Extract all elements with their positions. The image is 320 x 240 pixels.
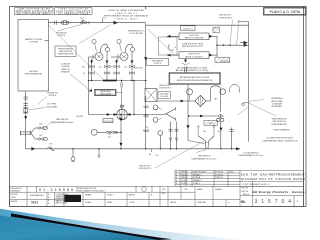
N8 tick	[151, 149, 153, 152]
svg-text:DIA ORIFICE: DIA ORIFICE	[198, 155, 211, 158]
svg-text:EXPANSION JT 2: EXPANSION JT 2	[128, 29, 145, 32]
svg-text:REFROIDISSEUR AIR ATOMISATION: REFROIDISSEUR AIR ATOMISATION	[177, 79, 213, 82]
valve NO upper branch	[37, 127, 43, 130]
wire: elbow down at x=145.7	[145, 23, 147, 89]
svg-text:REFRIGERATION: REFRIGERATION	[25, 73, 42, 76]
capillary coil	[121, 81, 123, 87]
svg-text:91-315585: 91-315585	[39, 188, 73, 192]
svg-text:TEMP SENSOR: TEMP SENSOR	[271, 119, 287, 121]
svg-text:TEMPERATURE: TEMPERATURE	[271, 123, 287, 126]
svg-text:MADE: MADE	[197, 188, 203, 191]
right leg arrow stub	[167, 54, 179, 56]
title text box line	[240, 181, 304, 183]
wire: branch to coupling	[189, 115, 217, 117]
svg-text:AIR COMP INSTRUM SEATED: AIR COMP INSTRUM SEATED	[17, 13, 51, 16]
trd hatched box	[204, 120, 218, 125]
flow arrow right on bottom pipe	[31, 147, 35, 150]
wire: riser x145.7 to main pipe	[145, 115, 147, 149]
svg-text:SCALE: SCALE	[85, 201, 92, 204]
svg-text:CARTOUCHE 1: CARTOUCHE 1	[193, 171, 206, 174]
leader funnel	[196, 150, 206, 153]
leader to solenoid	[38, 97, 47, 105]
wire: pipe y101 from x-box	[157, 100, 196, 102]
swoosh pale blue band	[0, 209, 240, 240]
svg-text:B: B	[48, 200, 49, 202]
svg-text:6 POS 02: 6 POS 02	[215, 174, 223, 176]
inner right border line	[303, 7, 305, 207]
sheet border	[10, 7, 307, 207]
flange pair upper	[24, 96, 29, 98]
svg-text:CHK'D: CHK'D	[11, 197, 17, 199]
branch lower	[31, 133, 37, 139]
svg-text:AIR HOSES: AIR HOSES	[271, 100, 283, 103]
svg-text:VOIR NOTE 2: VOIR NOTE 2	[219, 17, 233, 19]
fold tick	[145, 7, 147, 10]
svg-text:NO: NO	[102, 18, 106, 20]
svg-text:NO: NO	[80, 18, 84, 20]
motor pump triangles	[114, 113, 117, 116]
capped stub	[98, 148, 99, 149]
svg-text:617 GPM: 617 GPM	[47, 104, 56, 106]
svg-text:TER 03: TER 03	[181, 174, 187, 176]
title block outer	[10, 186, 304, 206]
svg-text:PLAN C.A.O. CATIA: PLAN C.A.O. CATIA	[270, 10, 301, 14]
svg-text:CAPTEUR DE: CAPTEUR DE	[59, 50, 73, 53]
svg-text:1-(8T#50-): 1-(8T#50-)	[134, 67, 143, 69]
flow arrow down right riser	[144, 57, 147, 60]
svg-text:CODE: CODE	[129, 202, 135, 204]
tag box on pipe	[181, 26, 196, 31]
water cooling system box	[18, 20, 49, 92]
nozzle tick	[45, 40, 49, 42]
wire: pipe y45	[217, 44, 249, 46]
spring hose left	[197, 128, 200, 137]
funnel venturi	[198, 136, 214, 149]
wire: hook hose	[206, 86, 221, 112]
wire: top supply pipe	[49, 22, 146, 24]
svg-text:NOTE 3: NOTE 3	[154, 63, 161, 65]
flange pair lower	[24, 103, 29, 105]
title block row line	[10, 191, 161, 193]
svg-text:ISSUED: ISSUED	[215, 189, 223, 191]
revision table	[175, 170, 304, 186]
svg-text:NIVEAU 3: NIVEAU 3	[193, 173, 202, 176]
svg-text:ISSUED: ISSUED	[11, 201, 18, 203]
swoosh black stripe	[11, 213, 172, 240]
wire: y-branch	[163, 109, 176, 120]
svg-text:DIAGRAM SCH. PP. COOLING WATER: DIAGRAM SCH. PP. COOLING WATER	[241, 177, 306, 181]
capillary box	[95, 89, 117, 95]
svg-text:ZONE 1: ZONE 1	[193, 183, 200, 185]
svg-text:REF 10: REF 10	[243, 194, 249, 196]
leader see note 2	[155, 141, 205, 168]
expansion joint oval	[61, 21, 69, 25]
PI gauge	[91, 129, 97, 135]
svg-text:P/E 7/6: P/E 7/6	[242, 188, 249, 190]
svg-text:DIAPHRAGME Ø 41.3 mm: DIAPHRAGME Ø 41.3 mm	[239, 154, 264, 157]
atomizing hoses leaders	[249, 100, 264, 102]
wire: mid pipe y25	[146, 24, 249, 26]
svg-text:ATOMIZING: ATOMIZING	[271, 97, 283, 100]
svg-text:W: W	[83, 73, 85, 75]
wire: drop pipe from box bottom	[25, 91, 27, 149]
flow arrow on top pipe	[113, 21, 118, 24]
wire: bottom loop pipe	[89, 114, 164, 116]
pump 2 discharge loop	[125, 44, 132, 53]
header pipe	[89, 80, 146, 82]
svg-text:ONE FINE: ONE FINE	[197, 202, 207, 204]
svg-text:TEMP SENSOR: TEMP SENSOR	[58, 48, 74, 50]
NO tag top pipe right	[102, 19, 104, 23]
wire: box outlet drop x188	[187, 85, 189, 141]
pump top tag	[121, 107, 123, 110]
svg-text:PATTE TO GAUCHE: PATTE TO GAUCHE	[185, 37, 204, 40]
temp sensor leader	[249, 103, 276, 116]
pump 2 suction line	[111, 56, 120, 58]
svg-text:POS 02: POS 02	[181, 183, 188, 185]
svg-text:1-(LT#50-): 1-(LT#50-)	[104, 121, 113, 123]
solenoid valve NO on top pipe	[80, 21, 87, 24]
capillary box link	[116, 91, 122, 93]
note box 2	[55, 8, 93, 15]
junction dots header	[88, 80, 89, 81]
svg-text:2-(TEP-N.1): 2-(TEP-N.1)	[220, 61, 231, 63]
svg-text:26 DIA IN ORIFICE IN BODY: 26 DIA IN ORIFICE IN BODY	[266, 137, 294, 140]
globe valve on bottom pipe	[48, 147, 55, 151]
valve NO on riser	[143, 130, 148, 132]
svg-text:B: B	[48, 203, 49, 205]
leader dia orifice	[47, 123, 52, 129]
svg-text:SEE NOTE 2: SEE NOTE 2	[219, 15, 232, 17]
svg-text:NOTE 4: NOTE 4	[49, 95, 57, 97]
svg-text:PATTES SUPPORT TU: PATTES SUPPORT TU	[182, 45, 203, 48]
motor pump circle	[117, 109, 128, 120]
svg-text:DRAFT /: DRAFT /	[85, 194, 93, 197]
pump 1 gauge a	[92, 39, 96, 43]
svg-text:LEFT LEG: LEFT LEG	[189, 35, 199, 37]
svg-text:POS 02: POS 02	[181, 180, 188, 182]
flow arrows bottom loop	[107, 113, 110, 116]
svg-text:DR'N BY: DR'N BY	[11, 194, 19, 196]
hose hook top right	[230, 85, 240, 93]
svg-text:7/E: 7/E	[184, 189, 188, 191]
orifice plate	[23, 107, 29, 109]
junction dot loop/riser	[133, 80, 134, 81]
svg-text:D'HUILE: D'HUILE	[61, 66, 70, 68]
svg-text:ATOMIZING AIR PRE-COOLER: ATOMIZING AIR PRE-COOLER	[180, 76, 210, 79]
svg-text:LUBE OIL HEAT EXCHANGER: LUBE OIL HEAT EXCHANGER	[108, 9, 144, 12]
svg-text:DIAPHRAGME Ø 14.3 mm: DIAPHRAGME Ø 14.3 mm	[192, 157, 217, 160]
svg-text:NO: NO	[49, 144, 53, 146]
right link vertical	[209, 35, 217, 37]
pump 1 discharge loop	[100, 44, 107, 53]
support frame box	[159, 37, 178, 55]
stub with flanges x231.5	[231, 128, 233, 149]
approval circle	[142, 187, 147, 192]
hose stub on riser	[245, 102, 249, 104]
svg-text:30 GPM): 30 GPM)	[160, 96, 168, 98]
note box 1	[15, 8, 54, 15]
svg-text:CAPILLAIRE: CAPILLAIRE	[100, 92, 112, 95]
svg-text:( VOIR (T. 3426 ): ( VOIR (T. 3426 )	[115, 18, 138, 20]
wire: riser into x-box	[145, 96, 147, 115]
svg-text:DIA ORIFICE: DIA ORIFICE	[56, 118, 69, 121]
see note 2 leaders	[230, 20, 233, 46]
svg-text:6TER 03: 6TER 03	[215, 177, 222, 179]
svg-text:2-(SP-EL+): 2-(SP-EL+)	[183, 28, 193, 30]
wire: riser x134 down	[133, 81, 135, 115]
right leg box	[179, 52, 209, 59]
svg-text:WATER COOLING: WATER COOLING	[25, 38, 43, 41]
strainer diamond	[195, 95, 206, 106]
svg-text:DESSIN N.: DESSIN N.	[11, 191, 21, 193]
valve NC lower branch	[37, 138, 43, 141]
svg-text:FIRST MADE FOR MS 50012: FIRST MADE FOR MS 50012	[78, 190, 105, 193]
long leader diagonal L1	[48, 25, 104, 81]
leader to temp sensor box	[79, 25, 111, 44]
column 2	[106, 52, 108, 81]
svg-text:APPR /: APPR /	[129, 194, 136, 197]
gauge stack left	[153, 105, 158, 110]
pump 1 gauge b	[105, 48, 109, 52]
svg-text:AIR SEC ATOMIZATION (1T. 3426): AIR SEC ATOMIZATION (1T. 3426)	[176, 69, 209, 72]
pump 2 circle	[120, 53, 128, 61]
manifold spool	[20, 131, 31, 133]
flange pair on top pipe	[54, 21, 56, 25]
wire: twin drop lines	[183, 67, 185, 73]
svg-text:JAN 06: JAN 06	[170, 201, 176, 204]
hatched tag	[213, 28, 220, 33]
branch upper	[31, 128, 37, 133]
wire: riser x121 from loop to main pipe	[120, 115, 122, 149]
svg-text:NOTE 4: NOTE 4	[58, 35, 66, 37]
svg-text:RIGHT LEG: RIGHT LEG	[189, 54, 200, 56]
svg-text:CONN AIR: CONN AIR	[272, 103, 283, 106]
pump 2 gauge a	[117, 39, 121, 43]
svg-text:DIAPHRAGME DANS CORPS Ø 6.35: DIAPHRAGME DANS CORPS Ø 6.35	[262, 139, 298, 142]
pump 1 inlet flange	[92, 55, 94, 60]
hatched box below pipe	[215, 57, 230, 62]
svg-text:VOIR NOTE 2: VOIR NOTE 2	[139, 168, 153, 170]
svg-text:NO: NO	[203, 131, 207, 133]
atomizing air pre-cooler box	[169, 73, 221, 85]
pump 1 suction line	[89, 56, 96, 58]
svg-text:LUBE OIL: LUBE OIL	[61, 69, 71, 71]
svg-text:16 DIA ORIFICE: 16 DIA ORIFICE	[243, 151, 259, 154]
svg-text:REV CONTROL: REV CONTROL	[56, 203, 68, 205]
svg-text:N8: N8	[149, 154, 151, 156]
valve pair upper on riser	[143, 106, 148, 108]
leader	[58, 25, 82, 32]
svg-text:1.3 0.6 IN DEP.: 1.3 0.6 IN DEP.	[129, 33, 144, 35]
extra leader	[237, 106, 249, 116]
wire: verticals to main pipe	[170, 122, 172, 149]
svg-text:GE Energy Products - Europe: GE Energy Products - Europe	[253, 190, 305, 194]
svg-text:B-VERSAILLES: B-VERSAILLES	[30, 194, 44, 197]
pump 1 circle	[95, 53, 103, 61]
end arrow main pipe	[236, 147, 240, 150]
spring hose right	[213, 128, 216, 137]
svg-text:TER 03: TER 03	[181, 172, 187, 174]
svg-text:30 GPM: 30 GPM	[76, 116, 83, 118]
AH gauge	[187, 89, 193, 95]
leader expansion to fork	[148, 29, 174, 54]
coupling symbol	[218, 114, 224, 117]
svg-text:CONT ON SHEET SH NO. 1: CONT ON SHEET SH NO. 1	[242, 184, 271, 186]
svg-text:2334 L/MIN: 2334 L/MIN	[46, 106, 57, 108]
clevis fork	[182, 63, 190, 66]
svg-text:90-: 90-	[241, 200, 246, 204]
TW gauge right	[220, 89, 226, 95]
svg-text:B: B	[48, 194, 49, 196]
title block verticals left	[26, 186, 28, 206]
pump 2 inlet flange	[117, 55, 119, 60]
svg-text:TRW: TRW	[229, 172, 233, 174]
wire: bottom main pipe	[26, 148, 240, 150]
flow arrow down	[24, 116, 27, 119]
vent flag on left drop	[89, 89, 93, 92]
svg-text:( SEE (T. NO.# ): ( SEE (T. NO.# )	[115, 13, 137, 15]
svg-text:CAPTEUR DE: CAPTEUR DE	[272, 120, 286, 123]
svg-text:B: B	[48, 197, 49, 199]
lt#50 box	[103, 119, 113, 123]
heavy segment on header	[103, 80, 117, 82]
svg-text:NIVEAU 2: NIVEAU 2	[193, 179, 202, 182]
svg-text:SITES A: SITES A	[193, 176, 201, 179]
column 1	[91, 59, 93, 81]
svg-text:TRD-1: TRD-1	[208, 123, 214, 125]
svg-text:TURB SUPPORT LEGS: TURB SUPPORT LEGS	[182, 43, 204, 45]
svg-text:6: 6	[176, 174, 177, 176]
svg-text:NC: NC	[39, 135, 43, 137]
svg-text:4: 4	[176, 183, 177, 185]
svg-text:NO: NO	[39, 124, 43, 126]
svg-text:SEE NOTE 2: SEE NOTE 2	[139, 165, 152, 167]
pump 2 gauge b	[130, 48, 134, 52]
svg-text:VOIR NOTE 2: VOIR NOTE 2	[159, 88, 171, 90]
svg-text:CONDUIT: CONDUIT	[61, 64, 71, 66]
svg-text:RECHARGE: RECHARGE	[152, 59, 163, 62]
vent tick	[88, 21, 90, 24]
svg-text:PATTE TO DROITE: PATTE TO DROITE	[185, 55, 203, 58]
wire: right riser top elbow	[238, 22, 249, 142]
svg-text:REFRIGERANT HUILE DE GRAISSAGE: REFRIGERANT HUILE DE GRAISSAGE	[104, 15, 149, 18]
svg-text:ATOMISAT°: ATOMISAT°	[271, 105, 282, 108]
svg-text:QTY BRANCHES STAND: QTY BRANCHES STAND	[58, 13, 89, 16]
wire: trd drop x221	[220, 122, 222, 149]
mid verticals	[167, 186, 169, 206]
leader 617gpm	[29, 108, 45, 110]
below right leg drop	[185, 58, 187, 62]
svg-text:DIAPHRAGME Ø 64mm: DIAPHRAGME Ø 64mm	[51, 121, 74, 124]
svg-text:6: 6	[176, 177, 177, 179]
svg-text:SCH. TUR. EAU REFFROIDISSEMENT: SCH. TUR. EAU REFFROIDISSEMENT	[241, 173, 305, 177]
column 4	[131, 52, 133, 81]
left leg arrow stub	[167, 35, 179, 37]
column 3	[116, 59, 118, 81]
svg-text:COMB CHAMBER: COMB CHAMBER	[273, 128, 290, 131]
see note 2 label	[219, 15, 233, 20]
svg-text:6 POS 02: 6 POS 02	[215, 172, 223, 174]
svg-text:CHKD /: CHKD /	[107, 195, 114, 197]
drain tee with vent circle	[72, 148, 73, 149]
svg-text:5423: 5423	[31, 201, 38, 205]
fork clevis	[168, 45, 176, 51]
svg-text:HEADER: HEADER	[61, 71, 70, 74]
svg-text:GROUPE: GROUPE	[29, 71, 39, 73]
svg-text:6: 6	[176, 172, 177, 174]
svg-text:DATE: DATE	[107, 201, 113, 204]
svg-text:F/E 7/6: F/E 7/6	[242, 191, 249, 193]
left leg box	[179, 33, 209, 40]
lube oil heat exchanger note	[104, 9, 149, 20]
PLAN C.A.O. CATIA box	[264, 8, 307, 15]
16 l/min box	[158, 92, 171, 99]
wire: left drop of loop	[88, 57, 90, 115]
X heat exchanger box	[145, 89, 157, 102]
temp sensor box	[55, 46, 76, 57]
svg-text:DRY ATOMIZING AIR (1T. 3426): DRY ATOMIZING AIR (1T. 3426)	[177, 66, 207, 69]
svg-text:TEMPERATURE: TEMPERATURE	[58, 53, 74, 56]
svg-text:TER 03: TER 03	[181, 177, 187, 179]
arrow into riser at y42.7	[240, 41, 247, 44]
svg-text:SYSTEM: SYSTEM	[29, 42, 38, 44]
swoosh teal triangle	[0, 216, 158, 240]
svg-text:6: 6	[176, 180, 177, 182]
black tracing cell	[65, 195, 82, 202]
leader conduit	[70, 74, 90, 90]
svg-text:NC: NC	[217, 131, 221, 133]
twin valves to riser	[97, 131, 105, 133]
